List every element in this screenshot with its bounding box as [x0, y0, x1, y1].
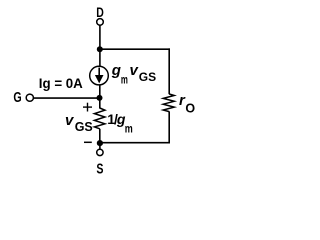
plus sign vGS polarity [83, 106, 92, 108]
junction drain node [97, 46, 103, 52]
current source U1 circle [90, 66, 109, 85]
svg-text:m: m [125, 123, 133, 135]
wire current source to gate junction [99, 85, 101, 109]
svg-text:O: O [185, 102, 195, 116]
wire top horizontal [100, 48, 170, 50]
wire stub to S terminal [99, 144, 101, 149]
minus sign vGS polarity [84, 141, 92, 143]
wire gate [34, 97, 100, 99]
junction gate node [97, 95, 103, 101]
svg-text:GS: GS [139, 70, 156, 84]
wire right vertical lower [168, 111, 170, 143]
svg-text:S: S [96, 162, 103, 178]
svg-text:G: G [13, 90, 21, 106]
resistor 1/gm [94, 108, 105, 129]
wire D to current source [99, 25, 101, 67]
current source arrow [98, 68, 100, 77]
terminal S [97, 149, 103, 155]
svg-text:D: D [96, 4, 104, 20]
wire right vertical upper [168, 48, 170, 94]
wire bottom horizontal [100, 142, 170, 144]
svg-text:GS: GS [75, 120, 93, 134]
wire resistor to source junction [99, 129, 101, 143]
terminal D [97, 19, 104, 26]
svg-text:g: g [111, 62, 121, 79]
terminal G [26, 94, 33, 101]
resistor rO [163, 94, 174, 112]
svg-text:v: v [65, 112, 75, 129]
svg-text:m: m [121, 73, 128, 87]
svg-text:Ig = 0A: Ig = 0A [39, 76, 83, 91]
junction source node [97, 140, 103, 146]
